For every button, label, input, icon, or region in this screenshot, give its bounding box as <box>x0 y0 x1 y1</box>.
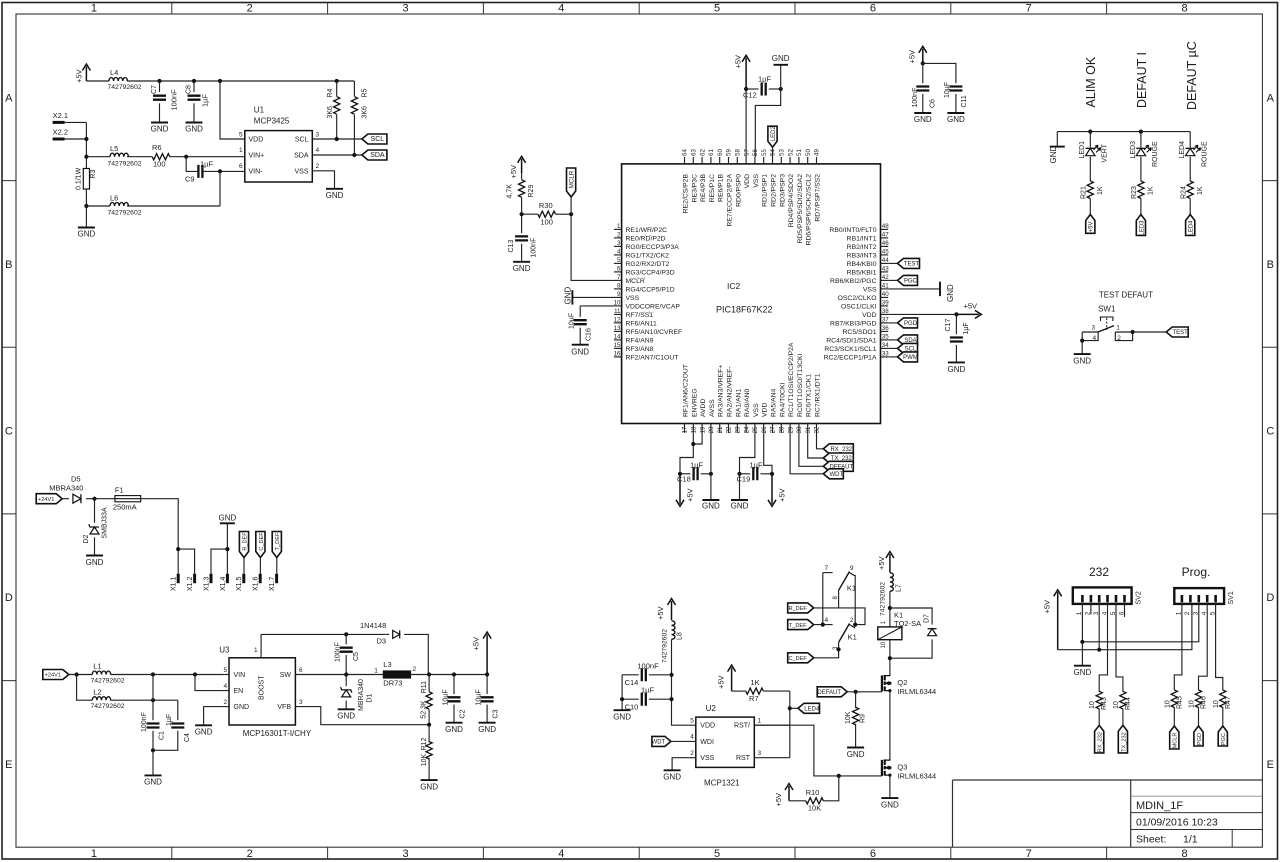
svg-text:VIN-: VIN- <box>249 169 264 176</box>
svg-text:C7: C7 <box>151 85 158 94</box>
svg-text:50: 50 <box>805 149 812 156</box>
svg-text:GND: GND <box>1074 668 1092 677</box>
junction D5/D2 <box>92 497 96 501</box>
svg-text:PGC: PGC <box>904 279 918 285</box>
ground below C1 <box>145 774 162 776</box>
junction L3 out / R11 <box>427 672 431 676</box>
capacitor C12 1uF <box>746 88 759 90</box>
wire caps to ground <box>152 750 154 775</box>
svg-text:24: 24 <box>743 426 750 433</box>
svg-text:LED3: LED3 <box>1139 220 1145 236</box>
svg-text:GND: GND <box>881 800 899 809</box>
svg-text:D2: D2 <box>83 534 90 543</box>
flag SDA at pin 35 <box>888 339 897 341</box>
svg-text:RC7/RX1/DT1: RC7/RX1/DT1 <box>815 373 822 417</box>
wire to D7 <box>890 608 932 625</box>
svg-text:3: 3 <box>617 240 621 247</box>
svg-text:10: 10 <box>1113 701 1120 709</box>
svg-text:1µF: 1µF <box>201 94 210 107</box>
svg-text:2: 2 <box>247 3 253 15</box>
svg-text:20: 20 <box>708 426 715 433</box>
svg-text:LED4: LED4 <box>1189 220 1195 236</box>
flag PGD below R46 <box>1194 726 1203 746</box>
svg-text:31: 31 <box>805 426 812 433</box>
svg-text:1µF: 1µF <box>166 714 173 726</box>
svg-text:2: 2 <box>316 163 320 170</box>
svg-text:TQ2-SA: TQ2-SA <box>894 619 921 628</box>
wire GND line to SV1 pin3 <box>1082 604 1198 642</box>
wire SW1 left to ground <box>1081 341 1083 355</box>
svg-text:GND: GND <box>1049 146 1058 164</box>
svg-text:+5V: +5V <box>774 793 783 807</box>
junction SW1 left <box>1080 339 1084 343</box>
flag LED4 at U2 <box>798 703 820 713</box>
junction U1 VDD rail <box>218 79 222 83</box>
svg-text:RF5/AN10/CVREF: RF5/AN10/CVREF <box>626 329 683 336</box>
svg-text:C1: C1 <box>159 731 166 740</box>
svg-text:E: E <box>1267 759 1274 771</box>
flag MCLR below R45 <box>1170 726 1179 749</box>
flag LED2 vertical <box>768 126 777 147</box>
wire EN to VIN rail <box>195 675 229 691</box>
svg-text:GND: GND <box>337 712 355 721</box>
svg-text:6: 6 <box>239 163 243 170</box>
svg-text:MDIN_1F: MDIN_1F <box>1136 800 1183 812</box>
svg-text:+5V: +5V <box>877 556 886 570</box>
wire DEFAUT to Q2 <box>847 691 882 693</box>
svg-text:7: 7 <box>1026 848 1032 860</box>
svg-text:742792602: 742792602 <box>91 703 125 710</box>
flag TEST right <box>1166 327 1188 337</box>
svg-text:43: 43 <box>882 266 889 273</box>
svg-text:RC0/T1OSO/T13CKI: RC0/T1OSO/T13CKI <box>797 353 804 417</box>
svg-text:1N4148: 1N4148 <box>360 621 386 630</box>
U1 pin 4 stub <box>312 154 362 156</box>
ground below C6 <box>914 112 931 114</box>
diode D3 1N4148 <box>385 633 389 635</box>
svg-text:742792602: 742792602 <box>108 84 142 91</box>
SV2 pin 2 <box>1090 595 1093 602</box>
ground sideways at IC2 pin 41 <box>888 288 940 290</box>
svg-text:VFB: VFB <box>277 704 291 711</box>
capacitor C16 10uF <box>580 305 614 307</box>
SV1 pin 2 <box>1189 595 1192 602</box>
svg-text:100nF: 100nF <box>169 89 178 111</box>
svg-text:SMBJ33A: SMBJ33A <box>101 507 108 538</box>
wire SV2 pin1 to ground <box>1081 604 1083 666</box>
connector SV1 <box>1174 588 1224 604</box>
svg-text:R47: R47 <box>1225 696 1232 709</box>
wire pin9 vertical <box>854 575 856 625</box>
svg-text:VDD: VDD <box>862 312 876 319</box>
svg-text:10K: 10K <box>421 754 428 767</box>
wire VDD pin57 riser <box>745 89 747 157</box>
flag R_DEF <box>788 603 814 613</box>
svg-text:C14: C14 <box>625 678 639 687</box>
svg-text:X2.1: X2.1 <box>53 111 68 120</box>
wire L3 to +5V rail <box>411 674 488 676</box>
svg-text:C8: C8 <box>186 85 193 94</box>
U3 pin3 VFB stub <box>295 707 429 725</box>
svg-text:C4: C4 <box>184 733 191 742</box>
power +5V arrow right at pin38 <box>956 310 981 318</box>
svg-text:6: 6 <box>870 3 876 15</box>
power +5V arrow L8 <box>668 599 676 621</box>
svg-text:53: 53 <box>779 149 786 156</box>
svg-text:RF7/SS1: RF7/SS1 <box>626 312 654 319</box>
inductor L3 DR73 <box>383 671 410 678</box>
flag PWM at pin 33 <box>888 356 897 358</box>
svg-text:GND: GND <box>144 778 162 787</box>
flag LED3 below R23 <box>1136 215 1145 236</box>
svg-text:TEST: TEST <box>904 262 920 268</box>
connector pin X1.5 <box>242 574 245 584</box>
svg-text:27: 27 <box>770 426 777 433</box>
wire L7 to coil <box>889 591 891 627</box>
svg-text:GND: GND <box>772 54 790 63</box>
connector pin X1.4 <box>226 574 229 584</box>
svg-text:GND: GND <box>564 287 573 305</box>
U3 pin6 SW stub <box>295 674 346 676</box>
svg-text:44: 44 <box>882 257 889 264</box>
transistor Q2 IRLML6344 <box>881 675 883 691</box>
svg-text:R_DEF: R_DEF <box>242 532 248 551</box>
svg-text:10µF: 10µF <box>475 689 482 705</box>
svg-text:RX_232: RX_232 <box>830 447 852 453</box>
junction R10/Q3 gate <box>837 774 841 778</box>
svg-text:VSS: VSS <box>294 169 308 176</box>
svg-text:4: 4 <box>825 617 829 624</box>
svg-text:742792602: 742792602 <box>880 582 887 616</box>
wire U2 VSS to ground <box>689 757 696 759</box>
svg-text:RD1/PSP1: RD1/PSP1 <box>762 174 769 207</box>
svg-text:VDD: VDD <box>762 403 769 417</box>
wire X2 to ground <box>85 206 87 228</box>
SV2 pin 3 <box>1098 595 1101 602</box>
svg-text:VSS: VSS <box>863 286 877 293</box>
wire X1.4 to X1.3 <box>211 549 227 574</box>
svg-text:21: 21 <box>717 426 724 433</box>
svg-text:X1.6: X1.6 <box>253 576 260 591</box>
svg-text:RE0/RD/P2D: RE0/RD/P2D <box>626 235 666 242</box>
svg-text:R5: R5 <box>362 88 369 97</box>
wire SV2 pin5 to R44 <box>1116 604 1123 692</box>
svg-text:VERT: VERT <box>1102 143 1109 162</box>
junction L5 tap <box>84 155 88 159</box>
capacitor C4 1uF <box>177 700 179 720</box>
svg-text:8: 8 <box>1181 3 1187 15</box>
junction LED1 <box>1088 130 1092 134</box>
svg-text:232: 232 <box>1089 565 1109 579</box>
flag DEFAUT at pin 30 <box>799 433 823 466</box>
svg-text:RE6/P1B: RE6/P1B <box>718 174 725 202</box>
junction EN tap <box>193 672 197 676</box>
svg-text:52: 52 <box>787 149 794 156</box>
resistor R29 4.7K <box>521 173 523 180</box>
wire Q3 source to ground <box>889 778 891 798</box>
svg-text:10: 10 <box>614 300 621 307</box>
svg-text:59: 59 <box>726 149 733 156</box>
svg-text:TX_232: TX_232 <box>1121 732 1127 752</box>
svg-text:1K: 1K <box>1097 186 1104 195</box>
wire SW1 right pins 1-2 <box>1115 332 1132 341</box>
svg-text:R30: R30 <box>539 201 553 210</box>
flag +5V below R21 <box>1086 215 1095 234</box>
flag TX_232 at pin 31 <box>808 433 824 458</box>
junction LED4 tap <box>788 706 792 710</box>
diode D7 flyback <box>928 629 937 636</box>
svg-text:+24V1: +24V1 <box>38 497 54 503</box>
svg-text:26: 26 <box>761 426 768 433</box>
svg-text:6: 6 <box>870 848 876 860</box>
svg-text:C19: C19 <box>737 475 751 484</box>
svg-text:64: 64 <box>682 149 689 156</box>
wire L2 to caps <box>110 699 178 701</box>
svg-text:12: 12 <box>614 317 621 324</box>
svg-text:GND: GND <box>946 284 955 302</box>
svg-text:RG2/RX2/DT2: RG2/RX2/DT2 <box>626 261 670 268</box>
capacitor C18 1uF <box>680 473 691 475</box>
ic IC2 PIC18F67K22 box <box>622 164 881 424</box>
svg-text:8: 8 <box>617 283 621 290</box>
wire SV2 pin6 stub <box>1124 604 1126 617</box>
svg-text:32: 32 <box>814 426 821 433</box>
svg-text:RD6/PSP6/SCK2/SCL2: RD6/PSP6/SCK2/SCL2 <box>806 174 813 246</box>
capacitor C5 100nF <box>345 634 347 644</box>
svg-text:GND: GND <box>326 191 344 200</box>
svg-text:C16: C16 <box>586 328 593 341</box>
svg-text:22: 22 <box>726 426 733 433</box>
U2 pin1 stub <box>754 724 790 726</box>
svg-text:100nF: 100nF <box>334 642 341 662</box>
svg-text:10µF: 10µF <box>569 313 576 329</box>
svg-text:5: 5 <box>617 257 621 264</box>
svg-text:Sheet:: Sheet: <box>1136 834 1166 846</box>
power +5V arrow R7 <box>728 665 736 691</box>
power +5V arrow above IC2 <box>742 55 750 89</box>
svg-text:VSS: VSS <box>753 403 760 417</box>
svg-text:RF2/AN7/C1OUT: RF2/AN7/C1OUT <box>626 354 679 361</box>
junction R29/R30/C13 <box>520 212 524 216</box>
svg-text:D1: D1 <box>367 693 374 702</box>
svg-text:2: 2 <box>247 848 253 860</box>
svg-text:ALIM OK: ALIM OK <box>1084 56 1098 107</box>
svg-text:SW1: SW1 <box>1098 305 1116 314</box>
svg-text:RB3/INT3: RB3/INT3 <box>847 252 877 259</box>
wire F1 to X1.1 <box>141 499 179 574</box>
svg-text:35: 35 <box>882 334 889 341</box>
flag LED4 below R24 <box>1186 215 1195 236</box>
svg-text:R45: R45 <box>1176 696 1183 709</box>
svg-text:1µF: 1µF <box>690 460 703 469</box>
wire coil to Q2 drain <box>889 640 891 674</box>
svg-text:55: 55 <box>761 149 768 156</box>
svg-text:1: 1 <box>617 223 621 230</box>
inductor L1 <box>92 671 110 675</box>
junction pin3 <box>837 647 841 651</box>
SV1 pin 3 <box>1198 595 1201 602</box>
inductor L2 <box>92 697 110 700</box>
svg-text:3: 3 <box>299 699 303 706</box>
svg-text:T_DEF: T_DEF <box>789 623 807 629</box>
svg-text:54: 54 <box>770 149 777 156</box>
svg-text:R10: R10 <box>806 788 820 797</box>
svg-text:RF6/AN11: RF6/AN11 <box>626 320 657 327</box>
svg-text:AVSS: AVSS <box>709 399 716 417</box>
svg-text:GND: GND <box>663 773 681 782</box>
power +5V arrow R10 <box>785 784 793 801</box>
inductor L8 vertical <box>672 621 676 639</box>
power +5V down arrow below C19 <box>768 474 776 507</box>
wire SW1 left pins 3-4 <box>1082 332 1098 341</box>
svg-text:RA5/AN4: RA5/AN4 <box>771 388 778 417</box>
U2 pin3 stub <box>754 757 790 759</box>
svg-text:VSS: VSS <box>753 174 760 188</box>
svg-text:RC2/ECCP1/P1A: RC2/ECCP1/P1A <box>824 354 877 361</box>
junction C14 right <box>669 673 673 677</box>
svg-text:Prog.: Prog. <box>1182 565 1211 579</box>
flag PGC below R47 <box>1218 726 1227 746</box>
svg-text:1µF: 1µF <box>963 322 970 334</box>
connector pin X1.3 <box>210 574 213 584</box>
resistor R3 0.1/1W <box>85 167 87 170</box>
svg-text:30: 30 <box>796 426 803 433</box>
svg-text:OSC1/CLKI: OSC1/CLKI <box>841 303 877 310</box>
wire SV1 pin4 to R46 <box>1199 604 1208 690</box>
svg-text:RG1/TX2/CK2: RG1/TX2/CK2 <box>626 252 670 259</box>
svg-text:11: 11 <box>614 308 621 315</box>
fuse F1 250mA <box>95 498 115 500</box>
svg-text:16: 16 <box>614 351 621 358</box>
wire LED top rail <box>1057 131 1190 133</box>
svg-text:RD4/PSP4/SDO2: RD4/PSP4/SDO2 <box>788 174 795 227</box>
svg-text:+5V: +5V <box>686 488 695 502</box>
svg-text:+5V: +5V <box>907 50 916 64</box>
svg-text:L7: L7 <box>895 584 902 592</box>
flag MCLR vertical <box>567 168 576 197</box>
svg-text:RD7/PSP7/SS2: RD7/PSP7/SS2 <box>815 174 822 222</box>
svg-text:C11: C11 <box>961 95 968 107</box>
capacitor C17 1uF <box>955 314 957 334</box>
flag T_DEF above X1.7 <box>272 532 281 558</box>
svg-text:2: 2 <box>224 699 228 706</box>
svg-text:R7: R7 <box>749 694 759 703</box>
svg-text:33: 33 <box>882 351 889 358</box>
power +5V arrow SV2 <box>1054 590 1062 650</box>
junction C10 left <box>620 697 624 701</box>
svg-text:4: 4 <box>558 3 564 15</box>
relay contact K1a <box>823 572 833 574</box>
junction C12 left <box>744 87 748 91</box>
svg-text:RE4/P3B: RE4/P3B <box>700 174 707 202</box>
svg-text:48: 48 <box>882 223 889 230</box>
wire L6 line <box>86 205 110 207</box>
svg-text:R46: R46 <box>1201 696 1208 709</box>
svg-text:RB6/KBI2/PGC: RB6/KBI2/PGC <box>830 278 877 285</box>
svg-text:C18: C18 <box>677 475 691 484</box>
svg-text:3: 3 <box>316 132 320 139</box>
ground below C14/C10 <box>614 709 631 711</box>
svg-text:17: 17 <box>682 426 689 433</box>
svg-text:X2.2: X2.2 <box>53 128 68 137</box>
junction C9 left <box>184 155 188 159</box>
resistor R21 1K <box>1087 181 1093 199</box>
ground below C16 <box>572 344 589 346</box>
svg-text:1µF: 1µF <box>200 160 213 169</box>
svg-text:1: 1 <box>239 147 243 154</box>
svg-text:RF4/AN9: RF4/AN9 <box>626 337 654 344</box>
flag SCL A2 <box>362 134 387 144</box>
svg-text:9: 9 <box>617 291 621 298</box>
svg-text:RE3/P3C: RE3/P3C <box>691 174 698 202</box>
IC2 left pins 1-16 <box>614 228 622 230</box>
connector pin X1.2 <box>193 574 196 584</box>
wire T_DEF to pin4 <box>814 624 833 626</box>
led LED4 ROUGE <box>1189 132 1191 148</box>
resistor R46 10 <box>1195 690 1201 708</box>
svg-text:+5V: +5V <box>472 637 481 651</box>
capacitor C1 100nF <box>152 675 154 721</box>
svg-text:10: 10 <box>1164 700 1171 708</box>
svg-text:MCLR: MCLR <box>1173 733 1179 749</box>
flag PGC at pin 42 <box>888 279 897 281</box>
wire X1.1 to X1.2 <box>178 549 194 574</box>
svg-text:D: D <box>5 592 13 604</box>
junction R11/R12/VFB <box>427 723 431 727</box>
junction X2.2 <box>84 137 88 141</box>
svg-text:4: 4 <box>617 249 621 256</box>
svg-text:GND: GND <box>513 264 531 273</box>
svg-text:VDD: VDD <box>700 723 715 730</box>
svg-text:R21: R21 <box>1081 186 1088 199</box>
svg-text:40: 40 <box>882 291 889 298</box>
U3 pin1 BOOST stub <box>260 634 262 657</box>
svg-text:R6: R6 <box>152 143 162 152</box>
svg-text:GND: GND <box>478 725 496 734</box>
svg-text:1K: 1K <box>1197 186 1204 195</box>
ground U2 VSS <box>664 769 681 771</box>
svg-text:RB4/KBI0: RB4/KBI0 <box>847 261 877 268</box>
junction T_DEF/pin7 <box>821 623 825 627</box>
junction pin9/pin2/R_DEF <box>853 623 857 627</box>
svg-text:DEFAUT I: DEFAUT I <box>1135 52 1149 108</box>
wire Q2 source to Q3 drain <box>889 693 891 757</box>
wire C14/C10 left join <box>621 675 623 710</box>
svg-text:47: 47 <box>882 232 889 239</box>
wire pin7 to T_DEF bus <box>822 573 824 625</box>
wire BOOST line <box>261 633 385 635</box>
svg-text:3: 3 <box>1193 611 1200 615</box>
svg-text:EN: EN <box>234 688 244 695</box>
svg-text:1/1: 1/1 <box>1183 834 1198 846</box>
svg-text:DEFAUT µC: DEFAUT µC <box>1185 41 1199 110</box>
resistor R5 3K6 <box>353 81 355 96</box>
wire GND to X1.4 <box>226 523 228 573</box>
svg-text:38: 38 <box>882 308 889 315</box>
ground U3 pin2 <box>195 724 212 726</box>
resistor R44 10 <box>1120 691 1126 709</box>
svg-text:IRLML6344: IRLML6344 <box>897 687 936 696</box>
svg-text:L8: L8 <box>677 632 684 640</box>
power +5V arrow R29 <box>518 156 526 173</box>
junction LED3 <box>1139 130 1143 134</box>
svg-text:57: 57 <box>743 149 750 156</box>
resistor R4 3K6 <box>336 81 338 96</box>
svg-text:+5V: +5V <box>656 606 665 620</box>
svg-text:SV2: SV2 <box>1135 591 1142 604</box>
svg-text:C13: C13 <box>508 240 515 253</box>
svg-text:RE5/P1C: RE5/P1C <box>709 174 716 202</box>
